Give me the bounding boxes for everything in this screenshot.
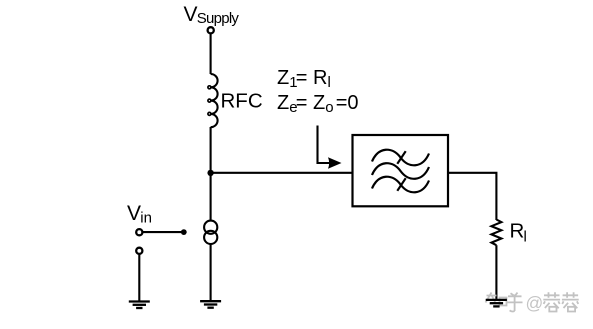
svg-text:Z1= Rl: Z1= Rl [277,67,331,91]
svg-text:V: V [184,3,198,26]
node dot at end of V_in wire [181,229,187,235]
ground at Rl [486,300,507,307]
wire from V_Supply terminal to inductor [210,33,212,74]
label V_Supply [184,3,240,27]
inductor RFC [208,74,218,127]
label V_in [127,202,152,227]
wire node A to current source I1 [210,173,212,221]
svg-text:Supply: Supply [197,10,240,27]
wire node A to filter input [211,172,353,174]
label RFC [221,90,263,113]
svg-text:R: R [510,220,525,243]
wire V_in to node dot [143,231,182,233]
current source I1 [204,221,217,244]
terminal V_in lower [136,248,142,254]
svg-text:l: l [524,229,527,246]
filter U1 box [353,135,449,206]
ground at current source [200,301,221,308]
wire current source to ground [210,243,212,300]
label Ze = Zo = 0 [277,92,359,116]
svg-text:RFC: RFC [221,90,263,113]
svg-text:V: V [127,202,141,225]
wire V_in lower terminal to ground [138,254,140,301]
arrow pointing into filter input [318,126,342,169]
filter wave bottom (crossed) [372,177,429,193]
svg-text:@: @ [526,293,544,313]
label Rl [510,220,527,246]
watermark Zhihu @rongrong [485,292,579,313]
ground at V_in [129,302,150,309]
label Z1 = Rl [277,67,331,91]
node A junction dot [207,170,213,176]
terminal V_Supply [208,27,214,33]
wire from inductor to node A [210,127,212,173]
wire resistor Rl to ground [495,245,497,299]
filter wave middle [372,163,429,179]
resistor Rl [491,220,501,246]
filter wave top (crossed) [372,150,429,166]
terminal V_in upper [136,229,142,235]
wire filter output to resistor Rl [448,173,496,220]
svg-text:Ze= Zo=0: Ze= Zo=0 [277,92,359,116]
svg-text:in: in [140,210,152,227]
